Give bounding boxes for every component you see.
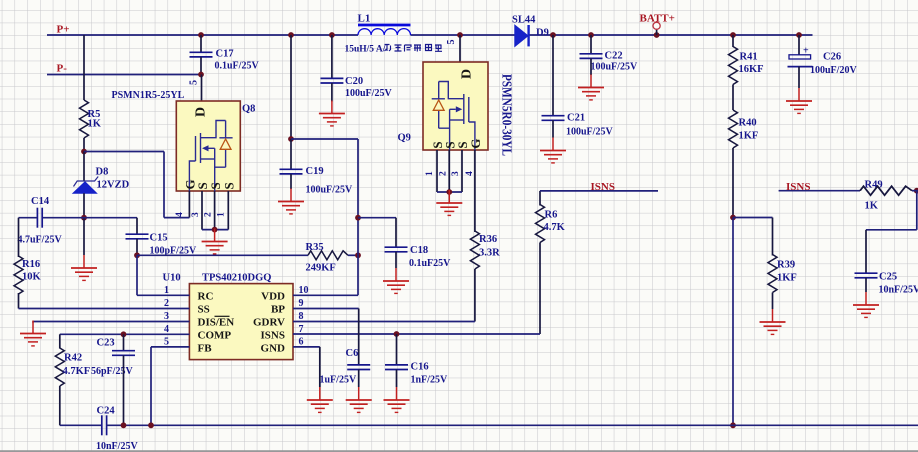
svg-text:1: 1	[164, 285, 169, 296]
value 100uF/25V (C21)	[566, 127, 613, 138]
ground for C6	[346, 387, 372, 412]
inductor L1 bar	[358, 24, 411, 27]
wire ISNS right	[779, 190, 860, 192]
label C20	[345, 76, 363, 87]
svg-text:3: 3	[191, 212, 201, 217]
wire C21 bottom lead	[552, 120, 554, 137]
label C19	[306, 166, 324, 177]
mosfet symbol Q8	[189, 121, 232, 192]
svg-text:DIS/EN: DIS/EN	[198, 317, 235, 329]
value 12VZD	[97, 180, 130, 191]
ground for C21	[540, 138, 566, 163]
ground for C16	[384, 387, 410, 412]
wire R39 bottom lead	[772, 293, 774, 310]
pin stub S/1 of Q8	[227, 191, 229, 230]
svg-text:C23: C23	[97, 338, 115, 349]
resistor R5	[80, 100, 89, 138]
capacitor C14	[37, 208, 42, 228]
svg-text:ISNS: ISNS	[591, 181, 615, 193]
value 100uF/20V (C26)	[810, 65, 857, 76]
svg-text:4: 4	[164, 324, 169, 335]
value 1K (R49)	[865, 201, 879, 212]
pin name D (Q8)	[194, 107, 209, 117]
wire pin3 DIS/EN	[33, 321, 189, 323]
capacitor C21	[542, 116, 565, 121]
pin stub S/2 of Q9	[448, 150, 450, 192]
pin stub G/4 of Q9	[474, 150, 476, 232]
ground for R39	[760, 309, 786, 334]
svg-text:BP: BP	[271, 303, 285, 315]
wire R5 to node	[83, 138, 85, 152]
wire C15 top lead	[136, 218, 138, 235]
wire ISNS junction to C16	[396, 334, 398, 365]
svg-text:S: S	[222, 182, 237, 189]
pin number 1 (Q8)	[217, 212, 227, 217]
wire FB to bottom rail	[150, 347, 152, 425]
junction Q8 sources	[212, 227, 218, 233]
node ISNS label (left)	[591, 181, 615, 193]
node BATT+ circle	[653, 22, 660, 29]
value 1uF/25V (C6)	[320, 375, 357, 386]
value CJK glyphs (inductor note)	[385, 45, 443, 52]
junction R40/R39 branch	[730, 215, 736, 221]
bottom window edge band	[0, 450, 918, 452]
label PSMN1R5-25YL	[112, 90, 185, 101]
pin number 3 (U10)	[164, 311, 169, 322]
label Q8	[242, 104, 255, 115]
junction BATT+ at C21	[550, 32, 556, 38]
label R36	[479, 234, 497, 245]
wire BATT+ port stub	[656, 29, 658, 35]
label R41	[740, 52, 758, 63]
wire C26 top lead	[798, 35, 800, 55]
transistor Q8 body	[176, 101, 240, 191]
svg-text:4.7uF/25V: 4.7uF/25V	[18, 235, 63, 246]
capacitor C18	[385, 247, 408, 252]
svg-text:3: 3	[451, 171, 461, 176]
svg-text:SS: SS	[198, 303, 210, 315]
svg-text:9: 9	[299, 298, 304, 309]
label D8	[96, 167, 109, 178]
label C15	[150, 233, 168, 244]
node BATT+ label	[640, 13, 675, 25]
wire R16 top lead	[18, 218, 20, 257]
svg-text:R40: R40	[739, 118, 757, 129]
svg-text:12VZD: 12VZD	[97, 180, 130, 191]
svg-text:P+: P+	[57, 24, 70, 36]
svg-text:R36: R36	[479, 234, 497, 245]
wire C17 bottom lead	[200, 57, 202, 75]
pin number 7 (U10)	[299, 324, 304, 335]
svg-text:6: 6	[299, 337, 304, 348]
wire C20 bottom lead	[331, 83, 333, 102]
pin name S4 (Q8)	[222, 182, 237, 189]
junction P+ at C17	[198, 32, 204, 38]
label C26	[823, 52, 841, 63]
wire gnd node to C15 corner	[84, 217, 137, 219]
capacitor C20	[320, 78, 343, 83]
ground for C18	[383, 268, 409, 293]
svg-text:4.7K: 4.7K	[544, 222, 566, 233]
svg-text:C21: C21	[567, 113, 585, 124]
svg-text:56pF/25V: 56pF/25V	[91, 366, 133, 377]
svg-text:ISNS: ISNS	[786, 181, 810, 193]
value 1nF/25V (C16)	[411, 375, 448, 386]
node ISNS label (right)	[786, 181, 810, 193]
value 10nF/25V (C25)	[879, 285, 918, 296]
svg-text:C26: C26	[823, 52, 841, 63]
svg-text:PSMN5R0-30YL: PSMN5R0-30YL	[500, 74, 515, 156]
svg-text:COMP: COMP	[198, 330, 232, 342]
ground for C20	[319, 101, 345, 126]
pin name S3 (Q9)	[455, 141, 470, 148]
svg-text:1: 1	[425, 171, 435, 176]
svg-text:7: 7	[299, 324, 304, 335]
svg-text:GDRV: GDRV	[253, 317, 285, 329]
pin stub S/3 of Q9	[461, 150, 463, 192]
svg-text:100uF/20V: 100uF/20V	[810, 65, 857, 76]
resistor R16	[14, 256, 23, 294]
pin number 5 (Q8)	[189, 80, 200, 85]
wire C25 ground lead	[865, 278, 867, 292]
value 249KF (R35)	[306, 263, 336, 274]
transistor Q9 body	[423, 62, 488, 150]
wire D8 anode to gnd node	[83, 193, 85, 218]
svg-text:100uF/25V: 100uF/25V	[306, 185, 353, 196]
value 0.1uF/25V (C17)	[215, 61, 260, 72]
mosfet symbol Q9	[432, 82, 475, 151]
value 4.7K (R6)	[544, 222, 566, 233]
ground for C19	[278, 189, 304, 214]
pin number 5 (U10)	[164, 337, 169, 348]
node P- label	[57, 63, 68, 75]
junction bottom rail at R40 branch	[730, 422, 736, 428]
value 4.7uF/25V (C14)	[18, 235, 63, 246]
resistor R42	[55, 348, 64, 386]
diode D8 zener symbol	[73, 177, 98, 194]
svg-text:1KF: 1KF	[739, 131, 759, 142]
svg-text:R35: R35	[306, 242, 324, 253]
pin number 4 (U10)	[164, 324, 169, 335]
label L1	[358, 13, 371, 25]
wire R49 junction to edge	[912, 190, 918, 192]
label C21	[567, 113, 585, 124]
svg-text:4: 4	[465, 171, 475, 176]
svg-text:4.7KF: 4.7KF	[63, 366, 91, 377]
wire R40 junction to bottom rail	[732, 218, 734, 426]
wire gate link vertical	[163, 152, 165, 218]
value 100uF/25V (C20)	[345, 88, 392, 99]
svg-text:ISNS: ISNS	[261, 330, 285, 342]
svg-text:L1: L1	[358, 13, 371, 25]
pin name COMP	[198, 330, 232, 342]
pin number 10 (U10)	[299, 285, 309, 296]
wire pin6 ground lead	[319, 347, 321, 387]
junction VDD vertical at C18 row	[355, 215, 361, 221]
capacitor C6	[347, 365, 370, 370]
svg-text:1nF/25V: 1nF/25V	[411, 375, 448, 386]
wire C6 ground lead	[358, 370, 360, 388]
wire R35 right lead	[348, 254, 358, 256]
label C6	[346, 348, 359, 359]
junction bottom rail at FB	[148, 422, 154, 428]
svg-text:16KF: 16KF	[739, 64, 764, 75]
junction R5/D8 node	[81, 149, 87, 155]
ground for DIS/EN	[20, 321, 46, 346]
svg-text:TPS40210DGQ: TPS40210DGQ	[202, 273, 271, 284]
svg-text:GND: GND	[261, 343, 286, 355]
capacitor C15	[126, 234, 149, 239]
value 100pF/25V (C15)	[150, 246, 197, 257]
svg-text:3.3R: 3.3R	[479, 248, 500, 259]
label R6	[545, 210, 558, 221]
capacitor C26 (polarized)	[788, 46, 813, 67]
inductor L1 coils	[358, 29, 411, 35]
wire P+ rail right segment (L1 to D9 anode)	[411, 34, 515, 36]
svg-text:3: 3	[164, 311, 169, 322]
wire pin1 RC	[137, 294, 189, 296]
wire pin8 GDRV	[293, 321, 475, 323]
pin number 6 (U10)	[299, 337, 304, 348]
junction R49/C25	[914, 188, 918, 194]
value 4.7KF (R42)	[63, 366, 91, 377]
wire C18 top lead	[395, 218, 397, 248]
svg-text:C16: C16	[411, 362, 429, 373]
pin name RC	[198, 290, 214, 302]
wire C26 bottom lead	[798, 67, 800, 88]
svg-text:PSMN1R5-25YL: PSMN1R5-25YL	[112, 90, 185, 101]
svg-text:C22: C22	[605, 51, 623, 62]
wire C19 bottom lead	[290, 174, 292, 189]
resistor R6	[536, 205, 545, 243]
capacitor C22	[580, 54, 603, 59]
resistor R35	[308, 251, 348, 260]
wire C25 top lead	[865, 230, 867, 273]
wire bottom rail	[107, 424, 918, 426]
svg-text:0.1uF/25V: 0.1uF/25V	[215, 61, 260, 72]
svg-text:5: 5	[189, 80, 200, 85]
svg-text:1: 1	[217, 212, 227, 217]
pin number 5 (Q9)	[446, 40, 457, 45]
svg-text:D: D	[460, 69, 475, 79]
wire gnd node to C14	[43, 217, 84, 219]
label C22	[605, 51, 623, 62]
wire C21 top lead	[552, 35, 554, 116]
wire R41 top lead	[732, 35, 734, 47]
junction BATT+ at C22	[588, 32, 594, 38]
capacitor C19	[280, 169, 303, 174]
wire C22 top lead	[590, 35, 592, 54]
svg-text:R42: R42	[64, 353, 82, 364]
wire R6 bottom lead	[539, 243, 541, 335]
pin name S3 (Q8)	[208, 182, 223, 189]
label R16	[22, 259, 40, 270]
wire C20 top lead	[331, 35, 333, 78]
wire C15 junction to RC pin	[136, 255, 138, 295]
wire R35 left lead	[137, 254, 308, 256]
ground for C25	[853, 292, 879, 317]
value 15uH/5A inductor note	[345, 45, 386, 55]
pin stub S/3 of Q8	[201, 191, 203, 230]
wire R36 bottom lead	[474, 269, 476, 322]
pin number 8 (U10)	[299, 311, 304, 322]
svg-text:10: 10	[299, 285, 309, 296]
pin stub S/2 of Q8	[214, 191, 216, 230]
label SL44	[512, 15, 536, 26]
wire R16 bottom lead	[18, 293, 20, 309]
capacitor C25	[855, 273, 878, 278]
svg-text:10nF/25V: 10nF/25V	[879, 285, 918, 296]
label C25	[879, 272, 897, 283]
svg-text:U10: U10	[163, 273, 181, 284]
svg-text:C20: C20	[345, 76, 363, 87]
svg-text:C24: C24	[97, 406, 116, 417]
label TPS40210DGQ	[202, 273, 271, 284]
wire pin5 FB	[151, 346, 189, 348]
value 16KF (R41)	[739, 64, 764, 75]
svg-text:VDD: VDD	[261, 290, 285, 302]
wire C19 branch to VDD vertical	[291, 138, 358, 140]
label Q9	[398, 133, 411, 144]
svg-text:C14: C14	[31, 196, 50, 207]
label C14	[31, 196, 50, 207]
wire R42 bottom lead	[59, 386, 61, 425]
svg-text:R16: R16	[22, 259, 40, 270]
pin name GDRV	[253, 317, 285, 329]
wire C25 branch down	[916, 191, 918, 230]
svg-text:FB: FB	[198, 343, 213, 355]
label R49	[865, 180, 883, 191]
pin number 2 (Q9)	[438, 171, 448, 176]
capacitor C17	[190, 52, 213, 57]
junction Q9 sources	[446, 189, 452, 195]
pin name D (Q9)	[460, 69, 475, 79]
label C18	[410, 245, 428, 256]
svg-text:R41: R41	[740, 52, 758, 63]
svg-text:P-: P-	[57, 63, 68, 75]
label R39	[777, 260, 795, 271]
wire C22 bottom lead	[590, 58, 592, 75]
junction COMP/C23	[121, 331, 127, 337]
wire C15 bottom lead	[136, 239, 138, 256]
label PSMN5R0-30YL (vertical)	[500, 74, 515, 156]
svg-text:C17: C17	[216, 49, 234, 60]
svg-text:C19: C19	[306, 166, 324, 177]
wire node to D8 cathode	[83, 152, 85, 182]
wire C17 top lead	[200, 35, 202, 52]
node P+ label	[57, 24, 70, 36]
ground for Q9 sources	[436, 190, 462, 215]
svg-text:2: 2	[164, 298, 169, 309]
junction P-/C17/Q8.D	[198, 72, 204, 78]
wire R39 top lead	[772, 218, 774, 256]
svg-text:R39: R39	[777, 260, 795, 271]
label C23	[97, 338, 115, 349]
capacitor C23	[112, 351, 135, 356]
wire gnd node lead	[83, 218, 85, 255]
wire C19 branch vertical	[290, 35, 292, 139]
resistor R40	[729, 110, 738, 148]
label R35	[306, 242, 324, 253]
wire C25 branch across	[866, 229, 917, 231]
pin name G (Q9)	[468, 138, 483, 148]
resistor R39	[768, 255, 777, 293]
label D9	[536, 28, 549, 39]
value 1KF (R39)	[777, 273, 797, 284]
wire R41-R40 link	[732, 85, 734, 111]
svg-text:8: 8	[299, 311, 304, 322]
svg-text:100uF/25V: 100uF/25V	[345, 88, 392, 99]
value 56pF/25V (C23)	[91, 366, 133, 377]
pin name VDD	[261, 290, 285, 302]
pin number 2 (Q8)	[204, 212, 214, 217]
wire pin4 COMP	[60, 333, 190, 335]
wire pin9 BP	[293, 308, 359, 310]
resistor R36	[470, 231, 479, 269]
pin 5 stub of Q8	[201, 75, 203, 102]
diode D9	[515, 25, 529, 46]
svg-text:100uF/25V: 100uF/25V	[566, 127, 613, 138]
op-amp U10 body	[189, 284, 293, 360]
pin number 4 (Q9)	[465, 171, 475, 176]
wire R40 bottom lead	[732, 148, 734, 218]
wire VDD vertical	[357, 139, 359, 295]
svg-text:D8: D8	[96, 167, 109, 178]
junction D8/C14/gnd node	[81, 215, 87, 221]
svg-text:5: 5	[446, 40, 457, 45]
value 1KF (R40)	[739, 131, 759, 142]
wire C23 top lead	[123, 334, 125, 350]
pin name BP	[271, 303, 285, 315]
svg-text:2: 2	[204, 212, 214, 217]
value 10K (R16)	[22, 272, 42, 283]
wire P+ rail left segment	[47, 34, 358, 36]
junction P+ at Q9 drain	[457, 32, 463, 38]
value 100uF/25V (C19)	[306, 185, 353, 196]
pin number 9 (U10)	[299, 298, 304, 309]
svg-text:SL44: SL44	[512, 15, 536, 26]
wire pin3 ground stub	[32, 322, 34, 323]
svg-text:C15: C15	[150, 233, 168, 244]
junction BATT+ at R41	[730, 32, 736, 38]
value 3.3R (R36)	[479, 248, 500, 259]
pin name DIS/EN	[198, 316, 235, 328]
svg-text:10K: 10K	[22, 272, 42, 283]
pin number 3 (Q9)	[451, 171, 461, 176]
wire R6 top lead	[539, 191, 541, 206]
junction P+ at C20	[329, 32, 335, 38]
pin 5 stub of Q9	[459, 35, 461, 62]
svg-text:C25: C25	[879, 272, 897, 283]
pin name S2 (Q8)	[195, 182, 210, 189]
wire C14 to R16 corner	[19, 217, 38, 219]
label C17	[216, 49, 234, 60]
wire BP to C6	[358, 309, 360, 365]
wire COMP to R42 corner	[59, 334, 61, 348]
ground for C26	[786, 88, 812, 113]
pin name GND	[261, 343, 286, 355]
svg-text:1K: 1K	[865, 201, 879, 212]
wire C18 bottom lead	[395, 252, 397, 268]
resistor R49	[860, 186, 912, 195]
svg-text:249KF: 249KF	[306, 263, 336, 274]
wire pin10 VDD	[293, 294, 358, 296]
wire pin6 GND	[293, 346, 320, 348]
wire C23 bottom lead	[123, 355, 125, 425]
junction ISNS/C16	[394, 331, 400, 337]
junction P+ at C19 branch	[288, 32, 294, 38]
capacitor C16	[385, 365, 408, 370]
